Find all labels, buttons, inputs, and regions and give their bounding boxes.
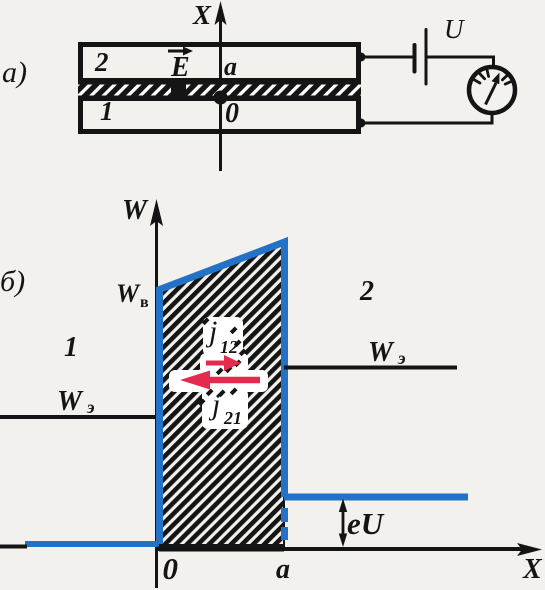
barrier bottom edge xyxy=(159,544,284,552)
svg-text:X: X xyxy=(192,0,212,30)
axis X (part b) arrowhead xyxy=(517,543,542,556)
junction dot top xyxy=(357,53,366,62)
svg-text:W: W xyxy=(368,337,395,368)
wire battery to galvanometer xyxy=(426,57,494,68)
strip black patch under E xyxy=(171,84,186,96)
axis W arrowhead xyxy=(150,199,163,226)
blue dashed continuation xyxy=(281,508,288,522)
svg-text:а): а) xyxy=(2,56,27,89)
svg-text:1: 1 xyxy=(100,96,114,126)
blue level bottom-left xyxy=(25,541,158,547)
svg-text:12: 12 xyxy=(220,337,238,357)
galvanometer ticks xyxy=(475,71,511,85)
dielectric strip black band xyxy=(78,78,361,101)
blue barrier outline xyxy=(160,242,285,546)
current j12 red arrow xyxy=(206,361,228,366)
svg-text:б): б) xyxy=(0,265,25,298)
svg-text:э: э xyxy=(397,348,405,368)
barrier hatch polygon xyxy=(159,242,284,551)
white clearing for current arrows xyxy=(169,317,268,429)
svg-text:в: в xyxy=(140,294,149,311)
svg-text:21: 21 xyxy=(223,408,242,428)
svg-text:2: 2 xyxy=(359,276,374,307)
junction dot bottom xyxy=(357,119,366,128)
svg-text:W: W xyxy=(122,195,149,226)
battery plate long xyxy=(425,30,428,85)
svg-text:1: 1 xyxy=(64,332,78,363)
current j21 red arrow xyxy=(206,377,260,384)
dielectric strip hatch xyxy=(78,85,361,96)
axis W vertical line xyxy=(155,218,158,588)
svg-text:E: E xyxy=(170,52,190,83)
wire top (plates to battery) xyxy=(359,56,414,59)
battery plate short xyxy=(413,45,417,72)
svg-text:U: U xyxy=(444,14,465,44)
W_э level right line xyxy=(284,366,457,370)
svg-text:a: a xyxy=(276,554,290,585)
hatch remnant dots xyxy=(198,317,247,406)
svg-text:э: э xyxy=(86,397,94,417)
vector E arrow xyxy=(168,50,186,53)
svg-text:X: X xyxy=(522,554,543,585)
wire galvanometer bottom xyxy=(361,113,492,123)
svg-text:0: 0 xyxy=(225,98,239,129)
axis X (part b) xyxy=(0,545,27,549)
axis X (part a) vertical line xyxy=(219,18,222,171)
W_э level left line xyxy=(0,415,156,419)
svg-text:0: 0 xyxy=(163,551,179,586)
svg-text:W: W xyxy=(116,279,141,308)
svg-text:W: W xyxy=(57,386,84,417)
svg-text:2: 2 xyxy=(94,47,109,77)
svg-text:eU: eU xyxy=(347,506,385,541)
svg-text:a: a xyxy=(224,52,237,81)
galvanometer circle xyxy=(469,67,515,113)
origin dot (part a) xyxy=(214,91,228,105)
plates outer box xyxy=(81,45,359,132)
galvanometer needle xyxy=(486,83,497,105)
axis X (part a) arrowhead xyxy=(215,1,227,25)
blue level right (lowered vacuum) xyxy=(284,494,468,501)
eU arrow xyxy=(342,505,345,541)
